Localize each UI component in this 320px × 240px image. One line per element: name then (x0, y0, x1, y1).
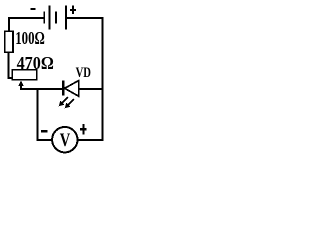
battery BT short plate 2 (55, 12, 57, 24)
LED VD cathode bar (62, 81, 64, 96)
battery plus sign label (70, 6, 76, 15)
wire bottom horizontal (wiper to LED cathode) (20, 88, 63, 90)
LED VD triangle (65, 81, 79, 97)
battery BT long plate 1 (49, 6, 51, 30)
potentiometer RP box (12, 70, 36, 80)
resistor R1 box (5, 31, 13, 52)
potentiometer wiper arrow (18, 80, 24, 90)
wire elbow into potentiometer left terminal (7, 77, 13, 79)
label 470 ohm (17, 53, 54, 73)
label VD (76, 63, 91, 80)
wire right vertical (102, 17, 104, 141)
wire LED anode to right vertical (79, 88, 103, 90)
svg-text:VD: VD (76, 63, 91, 80)
voltmeter minus sign label (41, 130, 48, 132)
battery BT long plate 2 (65, 6, 67, 30)
wire top-right horizontal (battery positive lead) (67, 17, 104, 19)
voltmeter V letter (60, 129, 70, 150)
label 100 ohm (15, 29, 45, 49)
battery BT short plate 1 (43, 12, 45, 24)
wire between R1 and potentiometer RP (7, 53, 9, 79)
svg-text:V: V (60, 129, 70, 150)
wire voltmeter right lead (78, 139, 104, 141)
wire voltmeter left lead (37, 139, 53, 141)
LED emission arrow 2 (65, 99, 74, 108)
wire junction vertical down to voltmeter (37, 88, 39, 141)
voltmeter PV circle (52, 127, 77, 152)
battery minus sign label (30, 8, 35, 10)
voltmeter plus sign label (80, 124, 86, 135)
LED emission arrow 1 (59, 97, 68, 106)
svg-text:100Ω: 100Ω (15, 29, 45, 49)
wire left vertical (to resistor R1) (8, 17, 10, 32)
wire top-left horizontal (battery negative lead) (8, 17, 43, 19)
